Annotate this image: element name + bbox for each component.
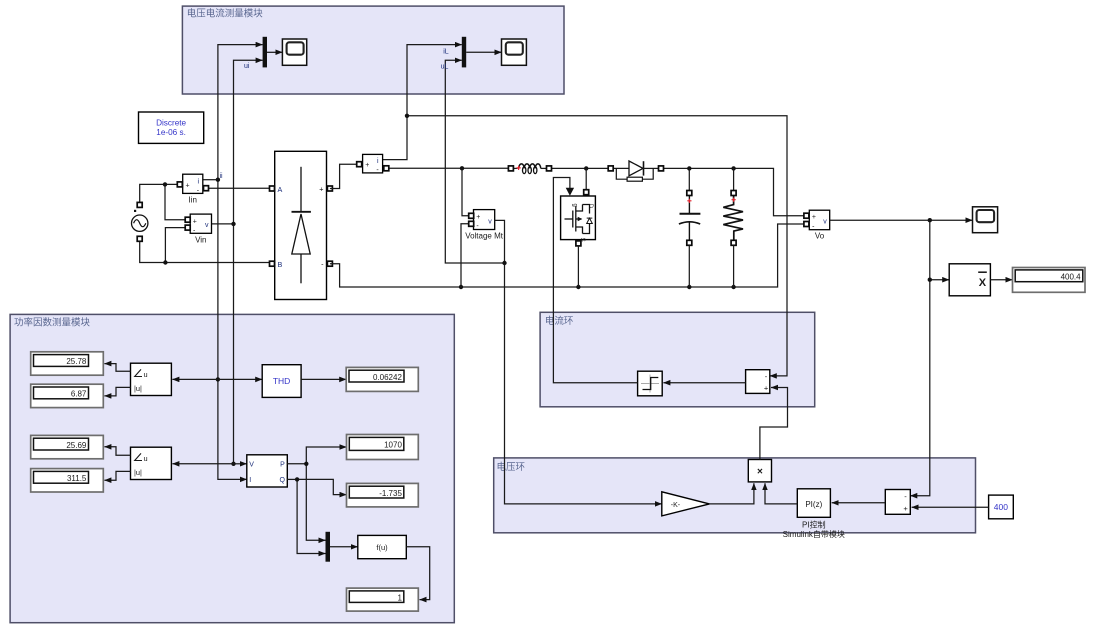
svg-text:Simulink自带模块: Simulink自带模块 — [783, 529, 845, 539]
wire net iL: inductor current to mux2 and current loop — [383, 45, 787, 376]
junction ii — [216, 178, 220, 182]
wire mag2 to display 311.5 — [104, 471, 130, 480]
wire net ii: Iin current output — [203, 45, 263, 480]
wire THD row to THD block — [218, 378, 262, 380]
display 311.5 — [31, 469, 104, 492]
svg-text:A: A — [278, 185, 283, 194]
svg-text:g: g — [572, 204, 578, 207]
wire THD row to angle block 1 — [172, 378, 218, 380]
diode D1 with snubber — [608, 161, 663, 181]
svg-text:311.5: 311.5 — [67, 474, 87, 483]
wire capacitor top drop — [688, 168, 690, 190]
junction uL tap — [502, 261, 506, 265]
svg-text:ii: ii — [220, 173, 224, 180]
junction node AC- — [163, 260, 167, 264]
svg-text:-K-: -K- — [671, 502, 681, 509]
voltage measurement Vo — [804, 210, 830, 240]
svg-text:u: u — [144, 370, 148, 379]
display 1 — [347, 588, 419, 611]
svg-text:+: + — [193, 218, 197, 225]
svg-text:u: u — [144, 454, 148, 463]
wire AC source minus rail to rectifier B — [140, 228, 272, 263]
display 6.87 — [31, 384, 104, 407]
sum block current loop — [746, 370, 770, 394]
junction iL — [405, 114, 409, 118]
junction resistor bottom — [731, 285, 735, 289]
svg-text:Q: Q — [280, 477, 286, 484]
svg-text:+: + — [319, 185, 323, 194]
wire V row to angle block 2 — [172, 463, 233, 465]
wire voltage sum to PI input — [832, 502, 886, 504]
constant 400 — [989, 495, 1014, 519]
svg-text:+: + — [365, 162, 369, 169]
junction MOSFET source on bottom rail — [576, 285, 580, 289]
svg-text:Vo: Vo — [815, 232, 825, 241]
block Mean — [949, 264, 990, 296]
wire Mux2 to Scope2 — [466, 51, 501, 53]
svg-text:400.4: 400.4 — [1061, 273, 1082, 282]
wire Vo output net — [830, 220, 973, 496]
scope Scope1 — [282, 39, 306, 65]
scope Scope2 — [502, 39, 527, 65]
wire resistor bottom drop — [733, 245, 735, 287]
svg-text:v: v — [488, 219, 492, 226]
svg-text:1070: 1070 — [384, 441, 402, 450]
wire net Q output — [287, 479, 346, 553]
svg-text:uL: uL — [441, 64, 449, 71]
svg-text:1: 1 — [397, 593, 402, 602]
junction ui — [231, 222, 235, 226]
wire V row to power block V input — [234, 463, 247, 465]
wire top rail: inductor to diode — [548, 167, 608, 169]
display 400.4 — [1013, 268, 1086, 293]
junction node AC+ — [163, 182, 167, 186]
svg-text:Iin: Iin — [188, 196, 196, 205]
svg-text:I: I — [249, 477, 251, 484]
wire PI output to product right input — [765, 483, 797, 504]
wire MOSFET drain drop — [585, 168, 587, 189]
svg-text:功率因数测量模块: 功率因数测量模块 — [14, 317, 91, 329]
wire net uL main: Voltage Mt v down to voltage loop — [495, 220, 662, 504]
scope Scope3 — [973, 207, 998, 233]
svg-text:|u|: |u| — [134, 384, 142, 393]
svg-text:Vin: Vin — [195, 236, 206, 245]
wire Mux1 to Scope1 — [267, 51, 282, 53]
svg-text:+: + — [476, 214, 480, 221]
load resistor R1 — [723, 191, 743, 246]
svg-text:B: B — [278, 260, 283, 269]
wire resistor top drop — [733, 168, 735, 190]
junction capacitor top — [687, 166, 691, 170]
svg-text:电流环: 电流环 — [545, 315, 574, 327]
svg-text:Voltage Mt: Voltage Mt — [465, 232, 504, 241]
MOSFET Q1 with body diode — [561, 190, 596, 246]
junction Voltage Mt minus on bottom rail — [459, 285, 463, 289]
junction ii to THD row — [216, 377, 220, 381]
junction top rail to Voltage Mt — [460, 166, 464, 170]
svg-text:PI控制: PI控制 — [802, 520, 826, 530]
display 25.78 — [31, 352, 104, 375]
svg-text:400: 400 — [994, 502, 1008, 512]
svg-text:+: + — [764, 384, 769, 393]
wire sum to relay — [663, 382, 745, 384]
subsystem area: voltage loop — [494, 458, 976, 533]
svg-text:0.06242: 0.06242 — [373, 373, 402, 382]
svg-text:iL: iL — [443, 48, 449, 55]
svg-text:25.78: 25.78 — [66, 357, 87, 366]
source Vac (AC voltage source) — [132, 202, 148, 241]
junction resistor top — [731, 166, 735, 170]
rectifier bridge (Universal Bridge) — [270, 151, 333, 299]
wire rectifier + to current sensor — [330, 164, 357, 188]
block f(u) — [358, 535, 407, 558]
wire constant 400 to voltage sum + — [912, 506, 989, 508]
wire MOSFET source drop — [577, 245, 579, 287]
svg-text:+: + — [812, 214, 816, 221]
wire relay to MOSFET gate — [553, 178, 637, 383]
display -1.735 — [347, 483, 419, 507]
svg-text:v: v — [823, 219, 827, 226]
wire top rail: diode to output node and Vo+ — [661, 168, 804, 215]
wire angle1 to display 25.78 — [104, 364, 130, 372]
block PI(z) — [797, 489, 830, 518]
svg-text:PI(z): PI(z) — [805, 500, 822, 509]
current measurement sensor (inductor current) — [357, 154, 389, 174]
sum block voltage loop — [885, 490, 910, 515]
voltage measurement Voltage Mt — [465, 210, 504, 241]
wire net P output — [287, 447, 346, 540]
wire net uL: Voltage Mt output branch to mux2 — [445, 60, 504, 263]
mux Mux3 — [326, 532, 331, 562]
svg-text:v: v — [205, 222, 209, 229]
svg-text:|u|: |u| — [134, 468, 142, 477]
svg-text:V: V — [249, 462, 254, 469]
block powergui Discrete — [139, 112, 204, 143]
junction MOSFET drain on rail — [584, 166, 588, 170]
subsystem area: power factor measurement module — [10, 314, 454, 622]
block THD — [262, 365, 301, 398]
svg-text:25.69: 25.69 — [66, 441, 87, 450]
wire Voltage Mt plus tap — [462, 168, 469, 216]
junction mean tap — [928, 278, 932, 282]
block Fourier angle/mag 1 — [131, 363, 172, 395]
svg-text:电压电流测量模块: 电压电流测量模块 — [187, 8, 264, 20]
svg-text:+: + — [186, 182, 190, 189]
mux Mux2 — [462, 37, 466, 68]
block active reactive power PQ — [247, 455, 287, 487]
svg-text:+: + — [903, 504, 908, 513]
wire net ui: Vin voltage output — [212, 60, 263, 464]
svg-text:X: X — [979, 277, 987, 289]
svg-text:Discrete: Discrete — [156, 119, 186, 128]
svg-text:THD: THD — [273, 376, 290, 386]
wire Voltage Mt minus tap — [461, 224, 469, 287]
display 25.69 — [31, 435, 104, 458]
wire AC source plus to Iin and Vin — [140, 184, 188, 219]
junction Q split — [295, 477, 299, 481]
subsystem area: current loop — [540, 312, 815, 407]
wire angle2 to display 25.69 — [104, 447, 130, 456]
block product (multiply) — [748, 460, 771, 482]
wire f(u) to display 1 — [406, 547, 429, 600]
svg-text:电压环: 电压环 — [497, 461, 526, 473]
svg-text:1e-06 s.: 1e-06 s. — [156, 128, 186, 137]
svg-text:×: × — [757, 467, 763, 478]
svg-text:P: P — [280, 462, 285, 469]
wire Mux3 to f(u) — [330, 546, 358, 548]
subsystem area: voltage-current measurement module — [182, 6, 564, 94]
current measurement Iin — [177, 174, 272, 204]
wire capacitor bottom drop — [688, 245, 690, 287]
block Fourier angle/mag 2 — [131, 447, 172, 479]
block relay (hysteresis) — [638, 371, 663, 396]
display 1070 — [347, 435, 419, 460]
voltage measurement Vin — [185, 214, 211, 244]
svg-text:f(u): f(u) — [376, 543, 388, 552]
svg-text:-1.735: -1.735 — [379, 489, 402, 498]
mux Mux1 — [263, 37, 267, 68]
wire product output to current loop sum + — [760, 388, 788, 460]
inductor L — [508, 164, 551, 174]
svg-text:6.87: 6.87 — [71, 390, 87, 399]
wire Mean to display — [990, 279, 1012, 281]
wire mag1 to display 6.87 — [104, 387, 130, 396]
wire top rail: sensor to inductor — [386, 167, 508, 169]
junction P split — [304, 462, 308, 466]
junction ui to V row — [231, 462, 235, 466]
wire bottom rail from rectifier - to Vo- — [330, 224, 804, 287]
junction capacitor bottom — [687, 285, 691, 289]
wire gain to product left input — [709, 483, 754, 504]
junction Vo out split — [928, 218, 932, 222]
capacitor C1 — [679, 191, 701, 246]
gain block -K- — [662, 492, 710, 516]
wire THD to display 0.06242 — [301, 378, 346, 380]
svg-text:ui: ui — [244, 63, 250, 70]
display 0.06242 — [346, 367, 418, 391]
